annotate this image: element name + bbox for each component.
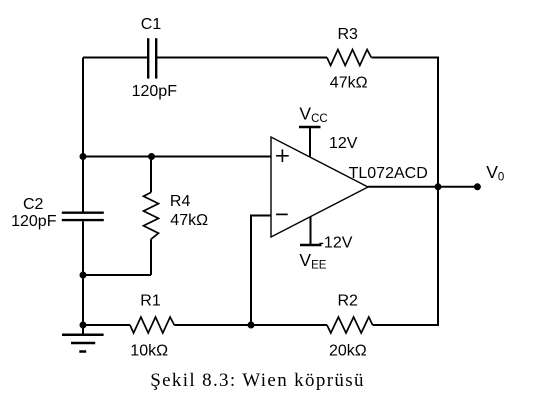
wire left vertical upper (top wire to C2)	[82, 58, 84, 212]
svg-text:12V: 12V	[329, 135, 358, 152]
wire top middle segment	[156, 57, 327, 59]
svg-text:Şekil 8.3: Wien köprüsü: Şekil 8.3: Wien köprüsü	[150, 370, 365, 391]
resistor R3	[327, 50, 371, 66]
svg-text:47kΩ: 47kΩ	[170, 212, 208, 229]
resistor R1	[130, 317, 174, 333]
resistor R2	[327, 317, 373, 333]
svg-text:TL072ACD: TL072ACD	[349, 165, 428, 182]
capacitor C1	[148, 38, 156, 78]
svg-text:47kΩ: 47kΩ	[330, 75, 368, 92]
power VEE tap	[300, 217, 322, 245]
svg-text:R2: R2	[338, 293, 359, 310]
node junction R4 top	[148, 153, 155, 160]
wire left vertical lower (C2 to ground)	[82, 221, 84, 335]
wire inverting input (feedback)	[251, 216, 271, 326]
node output terminal	[474, 183, 481, 190]
svg-text:-12V: -12V	[319, 234, 353, 251]
node junction C2 bottom	[80, 272, 87, 279]
op-amp plus input sign	[276, 149, 289, 162]
svg-text:R1: R1	[140, 293, 161, 310]
ground	[62, 335, 104, 352]
wire bottom right segment	[373, 324, 439, 326]
node junction ground	[80, 322, 87, 329]
node junction left-mid	[80, 153, 87, 160]
svg-text:10kΩ: 10kΩ	[130, 343, 168, 360]
wire middle horizontal (to + input)	[83, 156, 271, 158]
wire right vertical rail	[437, 58, 439, 326]
svg-text:C2: C2	[23, 196, 44, 213]
wire output	[368, 186, 477, 188]
wire R4 bottom to left rail	[83, 274, 151, 276]
node junction feedback	[248, 322, 255, 329]
svg-text:R4: R4	[170, 193, 191, 210]
op-amp minus input sign	[276, 213, 288, 215]
wire top right segment	[372, 57, 440, 59]
svg-text:120pF: 120pF	[132, 83, 178, 100]
capacitor C2	[62, 213, 104, 220]
wire bottom middle segment	[174, 324, 327, 326]
op-amp U1 triangle	[271, 137, 368, 237]
wire top-left horizontal segment	[83, 57, 148, 59]
svg-text:C1: C1	[141, 16, 162, 33]
svg-text:20kΩ: 20kΩ	[329, 343, 367, 360]
node junction output/right rail	[435, 183, 442, 190]
svg-text:R3: R3	[338, 26, 359, 43]
svg-text:120pF: 120pF	[11, 213, 57, 230]
power VCC tap	[299, 127, 321, 157]
resistor R4	[144, 157, 159, 276]
wire bottom left segment	[83, 324, 130, 326]
